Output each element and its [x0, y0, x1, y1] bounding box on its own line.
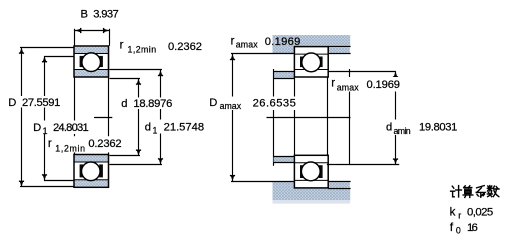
- dimension Da vertical line: [230, 54, 235, 182]
- label d1 21.5748: [143, 120, 206, 136]
- bearing left view: top cross-section (outer ring, ball, inner ring): [74, 46, 109, 77]
- svg-text:24.8031: 24.8031: [53, 122, 89, 134]
- svg-text:amax: amax: [220, 101, 242, 111]
- svg-text:D: D: [33, 122, 41, 134]
- svg-text:k: k: [450, 205, 456, 218]
- dimension d1 vertical line: [158, 70, 163, 165]
- label Da max 26.6535: [208, 97, 298, 112]
- svg-text:f: f: [450, 221, 454, 234]
- bearing right view: bottom cross-section: [294, 155, 328, 188]
- svg-text:D: D: [209, 97, 217, 109]
- svg-text:amax: amax: [236, 40, 258, 50]
- dimension da vertical line: [393, 71, 398, 165]
- svg-text:16: 16: [467, 222, 478, 234]
- label d 18.8976: [120, 98, 175, 111]
- dimension da extension lines: [327, 72, 399, 165]
- dimension D extension lines: [20, 48, 75, 187]
- svg-text:0,025: 0,025: [467, 206, 493, 218]
- dimension d extension lines: [109, 79, 140, 156]
- svg-text:amin: amin: [394, 126, 411, 136]
- svg-text:d: d: [145, 122, 151, 134]
- svg-text:1: 1: [153, 126, 158, 136]
- dimension Da extension lines: [231, 54, 295, 182]
- shaft shoulder bottom (grey): [273, 156, 295, 162]
- svg-text:3.937: 3.937: [93, 9, 119, 21]
- bearing right view: top cross-section: [294, 47, 328, 77]
- svg-text:d: d: [386, 121, 392, 133]
- svg-text:0.1969: 0.1969: [265, 36, 301, 48]
- shaft shoulder top (grey): [273, 69, 295, 166]
- svg-text:D: D: [8, 97, 16, 109]
- svg-text:21.5748: 21.5748: [164, 122, 205, 134]
- svg-text:27.5591: 27.5591: [22, 97, 60, 109]
- bearing left view: side silhouette lines between sections: [75, 46, 109, 155]
- dimension B width line with arrows: [75, 28, 110, 46]
- svg-text:amax: amax: [337, 83, 359, 93]
- svg-text:0.2362: 0.2362: [168, 41, 202, 53]
- bearing right view: axis centerline: [267, 117, 351, 119]
- r bottom leader line: [74, 148, 76, 155]
- dimension D1 vertical line: [42, 56, 47, 181]
- bearing left view: bottom cross-section: [74, 155, 109, 188]
- svg-text:18.8976: 18.8976: [133, 98, 172, 110]
- svg-text:0: 0: [456, 226, 461, 236]
- svg-text:r: r: [231, 36, 235, 48]
- dimension d vertical line: [136, 78, 141, 155]
- svg-text:1,2min: 1,2min: [128, 45, 157, 55]
- svg-text:1,2min: 1,2min: [55, 144, 85, 154]
- label D1 24.8031: [32, 121, 91, 136]
- factor f0 16: [450, 221, 478, 236]
- label da min 19.8031: [385, 120, 459, 137]
- svg-text:0.1969: 0.1969: [367, 79, 401, 91]
- svg-text:r: r: [331, 78, 335, 90]
- svg-text:d: d: [121, 98, 127, 110]
- dimension D vertical line: [19, 47, 24, 187]
- svg-text:r: r: [48, 138, 52, 150]
- svg-text:0.2362: 0.2362: [88, 138, 121, 150]
- label ra max top 0.1969: [231, 36, 301, 50]
- label r12min top 0.2362: [113, 38, 206, 55]
- heading (chinese) calculation factors: [451, 186, 499, 198]
- label D 27.5591: [7, 96, 63, 109]
- label B 3.937: [81, 9, 119, 21]
- svg-text:r: r: [120, 39, 124, 51]
- factor kr 0,025: [450, 205, 494, 220]
- housing bottom band (grey): [273, 182, 351, 204]
- ra reference vertical line: [349, 69, 351, 165]
- housing top band (grey): [273, 35, 351, 54]
- svg-text:19.8031: 19.8031: [419, 122, 457, 134]
- dimension D1 extension lines: [44, 57, 75, 181]
- bearing right view: side silhouette lines between sections: [295, 77, 328, 155]
- bearing left view: axis center tick: [94, 117, 112, 119]
- label ra max middle 0.1969: [330, 77, 403, 93]
- svg-text:B: B: [81, 9, 88, 21]
- svg-text:26.6535: 26.6535: [253, 98, 296, 110]
- dimension d1 extension lines: [109, 70, 162, 165]
- svg-text:1: 1: [43, 126, 48, 136]
- svg-text:r: r: [458, 210, 461, 220]
- label r12min bottom 0.2362: [47, 136, 124, 153]
